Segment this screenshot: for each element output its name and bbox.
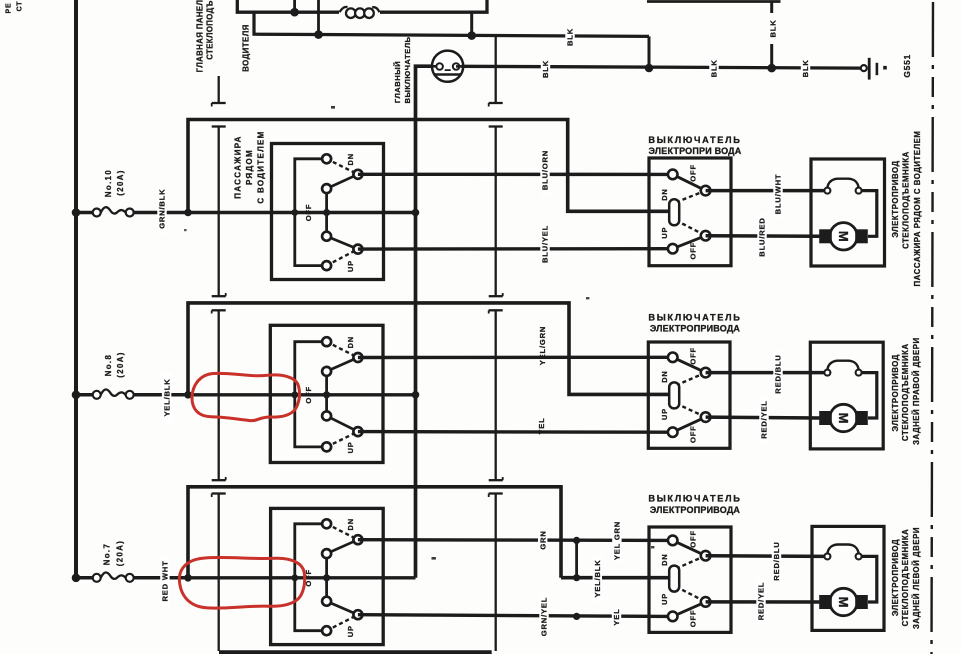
label GRN/YEL on UP wire row3 (539, 594, 548, 640)
svg-text:No.10: No.10 (104, 169, 113, 197)
label BLK on branch (769, 19, 778, 37)
label РЯДОМ (rotated) (245, 149, 254, 185)
svg-text:DN: DN (346, 153, 355, 165)
node on line B at x471 (467, 31, 476, 40)
svg-text:(20A): (20A) (116, 351, 125, 378)
motor M2 brushes (819, 411, 868, 425)
motor M1 body (830, 223, 857, 250)
wire drop line A to line B at x471 (470, 12, 473, 35)
svg-text:OFF: OFF (689, 242, 698, 260)
svg-text:OFF: OFF (689, 610, 698, 628)
switch SW2 arm link UP (solid) (327, 416, 358, 432)
label OFF bottom RS3 (689, 610, 698, 628)
svg-text:ВОДИТЕЛЯ: ВОДИТЕЛЯ (242, 24, 251, 72)
label UP RS3 (660, 593, 669, 605)
fuse F3 (No.7 20A) (93, 572, 134, 581)
wire line A with corner up at right (254, 0, 487, 12)
node OFF wire / common bus row1 (412, 209, 420, 217)
svg-text:GRN: GRN (538, 530, 547, 549)
OFF common bus (vertical x415) to main switch (416, 66, 433, 578)
remote switch RS2 dashed link UP (676, 403, 706, 417)
label YEL/GRN on DN wire row2 (538, 326, 547, 365)
svg-text:ВЫКЛЮЧАТЕЛЬ: ВЫКЛЮЧАТЕЛЬ (403, 36, 412, 103)
label No.8 (fuse number) (104, 354, 113, 377)
switch SW1 arm link DN (solid) (327, 174, 358, 188)
BLK branch wire from top to wire C (770, 2, 773, 69)
label BLU/WHT (773, 170, 782, 218)
title ЭЛЕКТРОПРИВОДА row1 (649, 146, 742, 156)
svg-text:СТЕКЛОПОДЪЕМНИКА: СТЕКЛОПОДЪЕМНИКА (901, 343, 910, 441)
motor M2 breaker dome (827, 361, 858, 370)
remote window switch RS2 box (648, 342, 730, 448)
label ЗАДНЕЙ ПРАВОЙ ДВЕРИ (rotated) row2 (912, 337, 921, 445)
label OFF top RS1 (689, 164, 698, 182)
ground G551 symbol (861, 58, 887, 80)
svg-text:(20A): (20A) (116, 169, 125, 196)
label BLK on wire C (x714) (709, 57, 718, 79)
top partial line at y1.5 (647, 0, 781, 3)
wire RS3 to motor breaker (706, 554, 825, 558)
label OFF switch SW1 (304, 204, 313, 222)
wire fuse F3 to junction (134, 576, 188, 580)
motor M3 brushes (819, 595, 868, 609)
connector row1 (right column) (489, 127, 503, 297)
svg-text:BLU/ORN: BLU/ORN (541, 150, 550, 190)
remote switch RS2 top contact (668, 353, 678, 363)
svg-text:No.7: No.7 (103, 543, 112, 566)
DN wire row1 (358, 173, 669, 176)
label UP RS2 (660, 408, 669, 420)
svg-text:M: M (836, 597, 851, 608)
switch SW2 arm pins (353, 353, 362, 436)
connector row3 (right column) (489, 494, 503, 652)
svg-text:OFF: OFF (689, 347, 698, 365)
svg-text:No.8: No.8 (104, 354, 113, 377)
svg-text:ЭЛЕКТРОПРИВОДА: ЭЛЕКТРОПРИВОДА (650, 324, 741, 334)
label СТЕКЛОПОДЪЕМНИКА (rotated) row2 (901, 343, 910, 441)
switch SW1 common link (325, 189, 328, 237)
svg-text:UP: UP (346, 260, 355, 272)
label YEL GRN on DN wire row3 (612, 519, 621, 563)
svg-text:OFF: OFF (304, 204, 313, 222)
svg-text:СТЕКЛОПОДЪ: СТЕКЛОПОДЪ (206, 0, 215, 60)
remote switch RS1 top contact (668, 170, 678, 180)
node OFF wire / switch common row1 (323, 209, 330, 216)
svg-text:(20A): (20A) (116, 540, 125, 567)
wire line B (318, 35, 649, 37)
node OFF wire / switch common row3 (323, 574, 330, 581)
label ЭЛЕКТРОПРИВОД (rotated) row1 (891, 160, 900, 237)
label (20A) fuse rating (116, 351, 125, 378)
label ГЛАВНАЯ ПАНЕЛЬ (rotated, cut at top) (196, 0, 205, 72)
master window switch SW2 box (270, 325, 383, 462)
wire fuse F1 to junction (134, 211, 188, 215)
master window switch SW3 box (271, 508, 384, 644)
fuse F1 (No.10 20A) (93, 207, 134, 216)
scan speck 4 (651, 546, 654, 548)
motor M2 breaker contacts (824, 370, 861, 376)
link wire from DN wire to feed wire (575, 540, 578, 577)
switch SW3 dashed link UP (327, 615, 358, 631)
connector row1 (left column) (212, 127, 226, 297)
remote switch RS1 dashed link UP (676, 220, 706, 235)
wire RS2 to motor brush (706, 415, 820, 419)
svg-text:BLU/YEL: BLU/YEL (541, 225, 550, 263)
window motor M3 box (812, 526, 884, 630)
label G551 (902, 54, 912, 78)
label OFF switch SW3 (304, 569, 313, 587)
motor M1 breaker dome (827, 179, 858, 188)
svg-text:РЕ: РЕ (6, 3, 13, 14)
coil (circuit breaker) on line A (339, 6, 380, 20)
label No.7 (fuse number) (103, 543, 112, 566)
remote switch RS3 arm pins (701, 551, 711, 607)
label RED/YEL (759, 397, 768, 443)
svg-text:M: M (836, 413, 851, 424)
label ВОДИТЕЛЯ (rotated) (242, 24, 251, 72)
remote switch RS3 arm link top (solid) (673, 540, 706, 555)
svg-text:СТЕКЛОПОДЪЕМНИКА: СТЕКЛОПОДЪЕМНИКА (901, 529, 910, 627)
node on wire C at x771 (767, 64, 776, 73)
junction node row3 at x188 (184, 574, 192, 582)
node OFF wire / bracket row1 (291, 209, 298, 216)
red annotation oval row2 (192, 373, 299, 420)
label GRN on DN wire row3 (538, 530, 547, 549)
label YEL on UP wire row2 (537, 417, 546, 434)
remote window switch RS3 box (649, 527, 731, 632)
remote switch RS3 common contact (oval) (669, 566, 679, 592)
label ЭЛЕКТРОПРИВОД (rotated) row3 (891, 539, 900, 616)
label ГЛАВНЫЙ (rotated) (393, 61, 402, 103)
node on bus row3 (72, 574, 81, 583)
title ВЫКЛЮЧАТЕЛЬ row2 (648, 312, 741, 322)
svg-text:ГЛАВНАЯ ПАНЕЛ: ГЛАВНАЯ ПАНЕЛ (196, 0, 205, 72)
connector stub above row1 (right column) (489, 37, 503, 107)
svg-text:YEL GRN: YEL GRN (613, 521, 622, 560)
junction node row1 at x188 (184, 209, 192, 217)
remote switch RS3 arm link bottom (solid) (673, 602, 706, 617)
svg-text:СТ: СТ (17, 1, 24, 12)
svg-text:ПАССАЖИРА: ПАССАЖИРА (233, 135, 242, 199)
label BLU/RED (757, 214, 766, 260)
DN wire row2 (358, 356, 669, 360)
label СТЕКЛОПОДЪЕМНИКОВ (rotated, cut at top) (206, 0, 215, 60)
svg-text:DN: DN (346, 518, 355, 530)
label С ВОДИТЕЛЕМ (rotated) (256, 130, 265, 203)
svg-text:OFF: OFF (304, 386, 313, 404)
window motor M2 box (810, 342, 883, 449)
OFF wire row3 (junction to common bus) (188, 576, 416, 579)
wire stub from top edge to node (293, 0, 296, 12)
label СТЕКЛОПОДЪЕМНИКА (rotated) row1 (902, 151, 911, 249)
label ЭЛЕКТРОПРИВОД (rotated) row2 (891, 354, 900, 431)
svg-text:ВЫКЛЮЧАТЕЛЬ: ВЫКЛЮЧАТЕЛЬ (648, 135, 741, 145)
label BLK on wire C (x545) (541, 58, 550, 80)
switch SW1 arm link UP (solid) (327, 236, 358, 249)
OFF wire row1 (junction to common bus) (188, 211, 416, 214)
label OFF top RS3 (689, 530, 698, 548)
wire RS2 to motor breaker (706, 371, 825, 375)
motor M1 breaker contacts (824, 188, 861, 194)
svg-text:YEL: YEL (612, 608, 621, 625)
label ПАССАЖИРА (rotated) (233, 135, 242, 199)
label (20A) fuse rating (116, 169, 125, 196)
svg-text:GRN/YEL: GRN/YEL (540, 597, 549, 636)
svg-text:YEL/BLK: YEL/BLK (162, 378, 171, 416)
wire RS1 to motor brush (706, 234, 820, 238)
remote switch RS1 arm pins (701, 186, 711, 241)
svg-text:СТЕКЛОПОДЪЕМНИКА: СТЕКЛОПОДЪЕМНИКА (902, 151, 911, 249)
wire tap from line A down to line B (254, 12, 318, 34)
remote switch RS2 arm link bottom (solid) (673, 417, 706, 432)
label DN switch SW3 (346, 518, 355, 530)
svg-text:OFF: OFF (689, 530, 698, 548)
switch SW3 dashed link DN (327, 524, 358, 540)
label GRN/BLK (fuse output wire) (157, 184, 166, 234)
motor M2 breaker-to-brush wire (862, 373, 877, 418)
svg-text:С ВОДИТЕЛЕМ: С ВОДИТЕЛЕМ (256, 130, 265, 203)
remote switch RS1 dashed link DN (676, 191, 706, 203)
node splice on UP wire row3 (573, 613, 580, 620)
svg-text:RED/YEL: RED/YEL (760, 400, 769, 439)
label YEL/BLK (fuse output wire) (162, 373, 171, 423)
svg-text:ЭЛЕКТРОПРИВОД: ЭЛЕКТРОПРИВОД (891, 160, 900, 237)
label RED/BLU (772, 537, 781, 585)
remote switch RS2 bottom contact (668, 427, 678, 437)
label UP switch SW3 (346, 625, 355, 637)
dash-dot page border (right) (932, 2, 934, 654)
connector row3 (left column) (212, 494, 226, 652)
UP wire row2 (358, 430, 669, 434)
svg-text:UP: UP (346, 441, 355, 453)
wire bus to fuse F2 (76, 393, 93, 397)
motor M3 breaker-to-brush wire (862, 556, 877, 602)
junction node row2 at x188 (184, 391, 192, 399)
label UP switch SW2 (346, 441, 355, 453)
node on wire C at x649 (645, 64, 654, 73)
title ЭЛЕКТРОПРИВОДА row3 (650, 505, 741, 515)
remote switch RS1 arm link bottom (solid) (673, 236, 706, 249)
wire bus to fuse F3 (76, 576, 93, 580)
title ЭЛЕКТРОПРИВОДА row2 (650, 324, 741, 334)
switch SW1 dashed link DN (327, 159, 358, 175)
switch SW3 left bracket (295, 524, 323, 631)
svg-text:RED/BLU: RED/BLU (774, 354, 783, 393)
loop wire row2: junction up over to remote switch common (188, 303, 671, 395)
switch SW3 arm pins (353, 535, 362, 619)
svg-text:G551: G551 (902, 54, 912, 78)
scan speck 2 (586, 297, 589, 299)
UP wire row1 (358, 247, 669, 251)
switch SW2 dashed link DN (327, 342, 358, 358)
remote switch RS2 arm pins (701, 368, 711, 422)
OFF wire row2 (junction to common bus) (188, 393, 416, 396)
switch SW2 left bracket (295, 342, 323, 447)
switch SW1 dashed link UP (327, 249, 358, 266)
label OFF bottom RS2 (689, 425, 698, 443)
svg-text:ЗАДНЕЙ ПРАВОЙ ДВЕРИ: ЗАДНЕЙ ПРАВОЙ ДВЕРИ (912, 337, 921, 445)
label M motor M1 (836, 231, 851, 242)
svg-text:DN: DN (660, 188, 669, 200)
label UP switch SW1 (346, 260, 355, 272)
node on bus row1 (72, 208, 81, 217)
switch SW2 common link (325, 371, 328, 416)
label DN RS2 (660, 370, 669, 382)
wire C: switch to ground (BLK net) (462, 66, 862, 68)
label BLK on line B (565, 26, 574, 48)
svg-text:ЭЛЕКТРОПРИВОДА: ЭЛЕКТРОПРИВОДА (650, 505, 741, 515)
switch SW3 arm link DN (solid) (327, 540, 358, 554)
label (20A) fuse rating (116, 540, 125, 567)
remote switch RS1 bottom contact (668, 244, 678, 254)
svg-text:BLK: BLK (566, 28, 575, 46)
wire RS3 to motor brush (706, 600, 820, 604)
svg-text:OFF: OFF (689, 164, 698, 182)
connector stub above row1 (left column) (212, 76, 226, 107)
svg-text:BLK: BLK (710, 59, 719, 77)
DN wire row3 (358, 538, 669, 542)
motor M3 breaker dome (827, 545, 858, 554)
label UP RS1 (660, 227, 669, 239)
motor M1 breaker-to-brush wire (862, 191, 877, 237)
svg-text:BLK: BLK (769, 19, 778, 37)
svg-text:YEL/BLK: YEL/BLK (593, 559, 602, 597)
switch SW2 dashed link UP (327, 432, 358, 447)
remote switch RS2 arm link top (solid) (673, 357, 706, 372)
svg-text:ЭЛЕКТРОПРИВОД: ЭЛЕКТРОПРИВОД (891, 539, 900, 616)
loop wire row1: junction up over to remote switch common (188, 120, 671, 213)
switch SW2 arm link DN (solid) (327, 358, 358, 372)
label M motor M2 (836, 413, 851, 424)
remote switch RS3 dashed link UP (676, 587, 706, 602)
node OFF wire / switch common row2 (323, 391, 330, 398)
main cutoff switch S1 (circle symbol) (432, 51, 464, 82)
fuse F2 (No.8 20A) (93, 389, 134, 398)
label DN RS3 (660, 554, 669, 566)
node on bus row2 (72, 391, 81, 400)
label ПАССАЖИРА РЯДОМ С ВОДИТЕЛЕМ (rotated) row1 (913, 131, 922, 287)
remote window switch RS1 box (649, 158, 731, 266)
label ЗАДНЕЙ ЛЕВОЙ ДВЕРИ (rotated) row3 (912, 527, 921, 629)
title ВЫКЛЮЧАТЕЛЬ row1 (648, 135, 741, 145)
label СТЕКЛОПОДЪЕМНИКА (rotated) row3 (901, 529, 910, 627)
label OFF switch SW2 (304, 386, 313, 404)
label ВЫКЛЮЧАТЕЛЬ (rotated) (403, 36, 412, 103)
node on line B at x318 (314, 30, 323, 39)
node OFF wire / bracket row3 (291, 574, 298, 581)
window motor M1 box (811, 159, 885, 266)
remote switch RS1 arm link top (solid) (673, 174, 706, 190)
node splice on DN wire row3 (573, 537, 580, 544)
node OFF wire / bracket row2 (291, 391, 298, 398)
svg-text:RED/YEL: RED/YEL (757, 582, 766, 621)
svg-text:DN: DN (346, 336, 355, 348)
svg-text:OFF: OFF (689, 425, 698, 443)
svg-text:ЭЛЕКТРОПРИВОД: ЭЛЕКТРОПРИВОД (891, 354, 900, 431)
label BLK on wire C (x805) (801, 57, 810, 79)
motor M1 brushes (819, 229, 868, 243)
label DN RS1 (660, 188, 669, 200)
wire bus to fuse F1 (76, 211, 93, 215)
node OFF wire / common bus row2 (412, 391, 420, 399)
svg-text:BLK: BLK (541, 60, 550, 78)
label YEL/BLK on feed wire (593, 556, 602, 602)
label OFF bottom RS1 (689, 242, 698, 260)
svg-text:RED/BLU: RED/BLU (772, 541, 781, 580)
remote switch RS1 common contact (oval) (669, 199, 679, 225)
remote switch RS2 common contact (oval) (669, 382, 679, 408)
svg-text:ВЫКЛЮЧАТЕЛЬ: ВЫКЛЮЧАТЕЛЬ (648, 494, 741, 504)
label BLU/ORN on DN wire row1 (540, 145, 549, 195)
master window switch SW1 box (272, 144, 384, 280)
label DN switch SW1 (346, 153, 355, 165)
svg-text:DN: DN (660, 370, 669, 382)
switch SW1 left bracket (295, 159, 323, 266)
wire drop line B to wire C at x649 (648, 36, 651, 68)
remote switch RS3 bottom contact (668, 612, 678, 622)
label M motor M3 (836, 597, 851, 608)
loop wire row3: junction up over down to feed line (188, 487, 561, 578)
tiny text РЕ (cut at corner) (6, 3, 13, 14)
svg-text:РЯДОМ: РЯДОМ (245, 149, 254, 185)
svg-text:UP: UP (346, 625, 355, 637)
label DN switch SW2 (346, 336, 355, 348)
label No.10 (fuse number) (104, 169, 113, 197)
motor M2 body (830, 404, 857, 431)
main power bus (left vertical) (74, 0, 78, 579)
svg-text:UP: UP (660, 227, 669, 239)
label OFF top RS2 (689, 347, 698, 365)
scan speck 3 (432, 557, 436, 560)
svg-text:UP: UP (660, 593, 669, 605)
feed wire row3 to remote switch common (561, 576, 671, 580)
svg-text:DN: DN (660, 554, 669, 566)
label RED WHT (fuse output wire) (160, 556, 169, 606)
switch SW3 common link (325, 554, 328, 602)
svg-text:RED WHT: RED WHT (161, 560, 170, 601)
node splice on feed wire (573, 574, 580, 581)
remote switch RS3 dashed link DN (676, 556, 706, 569)
UP wire row3 (358, 615, 669, 617)
motor M3 body (830, 588, 857, 615)
svg-text:ГЛАВНЫЙ: ГЛАВНЫЙ (393, 61, 402, 103)
remote switch RS2 dashed link DN (676, 373, 706, 386)
wire RS1 to motor breaker (706, 189, 825, 193)
label YEL on UP wire row3 (612, 607, 621, 627)
bottom partial bar (219, 650, 492, 654)
svg-text:ПАССАЖИРА РЯДОМ С ВОДИТЕЛЕМ: ПАССАЖИРА РЯДОМ С ВОДИТЕЛЕМ (913, 131, 922, 287)
switch SW3 arm link UP (solid) (327, 601, 358, 615)
svg-text:ВЫКЛЮЧАТЕЛЬ: ВЫКЛЮЧАТЕЛЬ (648, 312, 741, 322)
svg-text:ЭЛЕКТРОПРИ ВОДА: ЭЛЕКТРОПРИ ВОДА (649, 146, 742, 156)
switch SW2 contact pins (322, 337, 331, 451)
scan speck 5 (184, 229, 187, 231)
svg-text:M: M (836, 231, 851, 242)
wire from top to line A corner (237, 0, 254, 12)
label BLU/YEL on UP wire row1 (540, 225, 549, 263)
remote switch RS3 top contact (668, 536, 678, 546)
title ВЫКЛЮЧАТЕЛЬ row3 (648, 494, 741, 504)
label RED/BLU (773, 350, 782, 398)
svg-text:GRN/BLK: GRN/BLK (158, 189, 167, 229)
connector row2 (right column) (489, 310, 503, 480)
scan speck 1 (331, 106, 335, 109)
svg-text:ЗАДНЕЙ ЛЕВОЙ ДВЕРИ: ЗАДНЕЙ ЛЕВОЙ ДВЕРИ (912, 527, 921, 629)
motor M3 breaker contacts (824, 553, 861, 559)
label RED/YEL (756, 578, 765, 624)
svg-text:YEL/GRN: YEL/GRN (538, 326, 547, 365)
svg-text:BLK: BLK (801, 59, 810, 77)
